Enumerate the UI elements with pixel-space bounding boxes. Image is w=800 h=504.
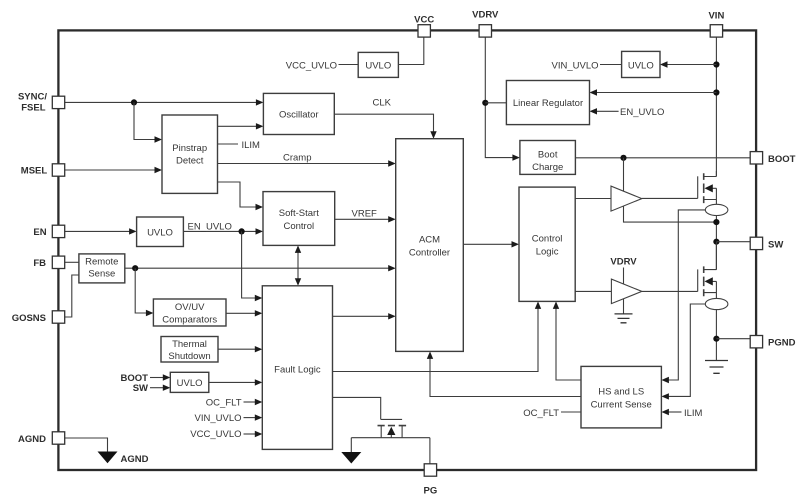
svg-text:Sense: Sense — [88, 268, 115, 279]
block UVLO (VIN) — [622, 51, 660, 77]
svg-text:VIN: VIN — [708, 11, 724, 22]
svg-text:Controller: Controller — [409, 248, 450, 259]
svg-text:FSEL: FSEL — [21, 103, 45, 114]
wire VIN_UVLO label to UVLO — [552, 60, 622, 71]
wire FB to Remote Sense — [65, 261, 79, 263]
wire OV/UV Comparators to Fault Logic — [226, 310, 262, 316]
svg-text:SYNC/: SYNC/ — [18, 92, 47, 103]
svg-text:Boot: Boot — [538, 150, 558, 161]
svg-text:EN: EN — [33, 227, 46, 238]
wire LS driver to LS FET gate — [642, 290, 698, 292]
svg-text:EN_UVLO: EN_UVLO — [188, 221, 232, 232]
block Boot Charge — [520, 141, 576, 175]
svg-text:GOSNS: GOSNS — [12, 313, 46, 324]
svg-text:AGND: AGND — [121, 454, 149, 465]
wire EN_UVLO from UVLO to Soft-Start Control — [183, 221, 263, 234]
svg-text:PGND: PGND — [768, 338, 796, 349]
wire Pinstrap Detect to Soft-Start Control — [218, 182, 264, 210]
wire ACM Controller to Control Logic — [463, 241, 519, 247]
block Oscillator — [263, 93, 334, 134]
svg-text:AGND: AGND — [18, 434, 46, 445]
pin SYNC/FSEL — [18, 92, 65, 114]
svg-text:OV/UV: OV/UV — [175, 302, 205, 313]
IC boundary — [58, 30, 756, 470]
wire LS sensor tap to HS/LS Current Sense — [661, 304, 705, 400]
op-amp HS gate driver — [611, 186, 642, 211]
op-amp LS gate driver — [611, 279, 641, 304]
wire HS/LS Current Sense to Control Logic — [553, 301, 581, 380]
svg-text:UVLO: UVLO — [177, 378, 203, 389]
current sensor HS — [705, 204, 728, 215]
wire BOOT stub to UVLO — [121, 373, 171, 384]
wire VREF from Soft-Start Control to ACM Controller — [335, 208, 396, 222]
ground PG FET — [341, 452, 361, 464]
svg-text:VCC_UVLO: VCC_UVLO — [286, 60, 337, 71]
svg-text:VDRV: VDRV — [610, 257, 637, 268]
pin AGND — [18, 432, 65, 445]
wire UVLO to VCC pin — [398, 37, 423, 64]
wire VDRV junction to Linear Regulator — [485, 102, 506, 104]
wire VIN junction to UVLO — [660, 61, 716, 67]
wire Fault Logic to PG gate — [333, 397, 381, 419]
block Remote Sense — [79, 254, 125, 283]
wire Cramp from Pinstrap Detect to ACM Controller — [218, 153, 396, 167]
wire SW stub to UVLO — [133, 383, 171, 394]
svg-text:UVLO: UVLO — [365, 60, 391, 71]
svg-text:PG: PG — [424, 486, 438, 497]
wire ILIM stub from Pinstrap Detect — [218, 140, 261, 151]
wire Fault Logic to Control Logic — [333, 301, 542, 371]
wire OC_FLT to Fault Logic — [206, 398, 263, 409]
node SW return junction — [713, 219, 719, 225]
pin MSEL — [21, 164, 65, 177]
wire Pinstrap Detect to Oscillator — [218, 123, 264, 129]
pin PG — [424, 464, 438, 497]
wire boot junction to HS driver — [623, 158, 625, 191]
svg-text:VIN_UVLO: VIN_UVLO — [195, 413, 242, 424]
wire Fault Logic to ACM Controller — [333, 313, 396, 319]
wire EN to UVLO — [65, 228, 137, 234]
pin GOSNS — [12, 311, 65, 324]
pin PGND — [750, 336, 795, 349]
svg-text:OC_FLT: OC_FLT — [523, 408, 559, 419]
svg-text:BOOT: BOOT — [768, 154, 796, 165]
ground LS driver — [615, 314, 633, 323]
svg-text:Pinstrap: Pinstrap — [172, 143, 207, 154]
block Soft-Start Control — [263, 192, 335, 246]
svg-text:Charge: Charge — [532, 162, 563, 173]
svg-text:Linear Regulator: Linear Regulator — [513, 98, 583, 109]
svg-text:Oscillator: Oscillator — [279, 109, 319, 120]
wire Soft-Start to Fault Logic double arrow — [295, 245, 301, 285]
svg-text:EN_UVLO: EN_UVLO — [620, 107, 664, 118]
wire VDRV net — [485, 37, 520, 161]
node VIN junction lower — [713, 89, 719, 95]
wire MSEL to Pinstrap Detect — [65, 167, 163, 173]
wire HS driver return to SW node — [624, 206, 717, 222]
block ACM Controller — [396, 139, 464, 352]
node SYNC junction — [131, 99, 137, 105]
ground power stage — [705, 361, 728, 374]
svg-text:Comparators: Comparators — [162, 314, 217, 325]
svg-text:Fault Logic: Fault Logic — [274, 364, 321, 375]
svg-text:ACM: ACM — [419, 235, 440, 246]
node PGND junction — [713, 336, 719, 342]
wire HS driver to HS FET gate — [642, 197, 698, 199]
block HS and LS Current Sense — [581, 366, 661, 428]
svg-text:SW: SW — [133, 383, 148, 394]
node EN_UVLO junction — [239, 228, 245, 234]
node VIN junction upper — [713, 61, 719, 67]
svg-text:Control: Control — [532, 234, 563, 245]
wire PGND node to PGND pin — [716, 338, 751, 340]
svg-text:Cramp: Cramp — [283, 153, 312, 164]
wire HS source to SW — [715, 215, 717, 269]
svg-text:UVLO: UVLO — [628, 60, 654, 71]
pin VIN — [708, 11, 724, 37]
ground AGND — [98, 452, 149, 466]
wire LS source to PGND — [715, 310, 717, 361]
block Linear Regulator — [506, 81, 589, 125]
pin VDRV — [472, 10, 499, 37]
transistor LS FET — [698, 242, 717, 299]
svg-text:HS and LS: HS and LS — [598, 386, 644, 397]
svg-text:VREF: VREF — [352, 208, 378, 219]
wire SW node to SW pin — [716, 241, 751, 243]
pin SW — [750, 237, 783, 250]
wire VDRV label to LS driver — [610, 257, 637, 314]
node Remote Sense output junction — [132, 265, 138, 271]
svg-text:Logic: Logic — [536, 247, 559, 258]
block Fault Logic — [262, 286, 332, 450]
wire AGND pin to ground — [65, 438, 108, 452]
wire VCC_UVLO label to UVLO — [286, 60, 358, 71]
pin BOOT — [750, 152, 795, 165]
pin VCC — [414, 15, 434, 37]
node boot junction — [620, 155, 626, 161]
svg-text:VDRV: VDRV — [472, 10, 499, 21]
svg-text:FB: FB — [33, 258, 46, 269]
wire PG FET drain to PG pin — [429, 438, 431, 464]
svg-text:ILIM: ILIM — [684, 408, 703, 419]
svg-text:Detect: Detect — [176, 156, 204, 167]
svg-text:Remote: Remote — [85, 256, 118, 267]
wire Control Logic to HS driver — [575, 198, 611, 200]
wire PG FET source to ground — [350, 438, 352, 452]
wire CLK from Oscillator to ACM Controller — [334, 98, 436, 139]
svg-text:Soft-Start: Soft-Start — [279, 208, 319, 219]
wire VIN junction to Linear Regulator — [590, 89, 717, 95]
svg-text:VCC_UVLO: VCC_UVLO — [190, 429, 241, 440]
node VDRV junction — [482, 100, 488, 106]
svg-text:MSEL: MSEL — [21, 166, 48, 177]
block Thermal Shutdown — [161, 337, 218, 363]
wire VIN net — [715, 37, 717, 176]
block UVLO (VCC) — [358, 52, 398, 77]
wire ILIM to HS/LS Current Sense — [661, 408, 702, 419]
wire GOSNS to Remote Sense — [65, 275, 79, 317]
svg-text:Control: Control — [283, 221, 314, 232]
svg-text:VIN_UVLO: VIN_UVLO — [552, 60, 599, 71]
block UVLO (BOOT/SW) — [170, 372, 209, 392]
svg-text:Shutdown: Shutdown — [168, 351, 210, 362]
block OV/UV Comparators — [153, 299, 226, 326]
wire Remote Sense to ACM Controller — [125, 265, 396, 271]
block UVLO (EN) — [137, 217, 184, 247]
wire OC_FLT to HS/LS Current Sense — [523, 408, 581, 419]
svg-text:Thermal: Thermal — [172, 339, 207, 350]
wire Boot Charge to BOOT pin — [575, 157, 751, 159]
pin EN — [33, 225, 64, 238]
svg-text:OC_FLT: OC_FLT — [206, 398, 242, 409]
wire Control Logic to LS driver — [575, 290, 611, 292]
wire UVLO to Fault Logic — [209, 379, 262, 385]
wire VIN_UVLO to Fault Logic — [195, 413, 263, 424]
wire EN_UVLO to Linear Regulator — [590, 107, 665, 118]
block Control Logic — [519, 187, 575, 301]
svg-text:Current Sense: Current Sense — [591, 399, 652, 410]
wire Thermal Shutdown to Fault Logic — [218, 346, 262, 352]
svg-text:SW: SW — [768, 239, 783, 250]
transistor PG FET — [351, 419, 430, 437]
node SW junction — [713, 239, 719, 245]
wire EN_UVLO junction to Fault Logic — [242, 231, 263, 301]
wire HS/LS Current Sense to ACM Controller — [427, 351, 581, 396]
pin FB — [33, 256, 64, 269]
svg-text:UVLO: UVLO — [147, 227, 173, 238]
wire Remote Sense junction to OV/UV Comparators — [135, 268, 153, 316]
current sensor LS — [705, 298, 728, 309]
wire HS sensor tap to HS/LS Current Sense — [661, 210, 705, 383]
svg-text:VCC: VCC — [414, 15, 434, 26]
svg-text:CLK: CLK — [373, 98, 392, 109]
transistor HS FET — [698, 171, 717, 205]
svg-text:ILIM: ILIM — [242, 140, 261, 151]
block Pinstrap Detect — [162, 115, 218, 193]
wire SYNC junction to Pinstrap Detect — [134, 102, 162, 142]
wire SYNC/FSEL to Oscillator — [65, 99, 264, 105]
wire VCC_UVLO to Fault Logic — [190, 429, 262, 440]
